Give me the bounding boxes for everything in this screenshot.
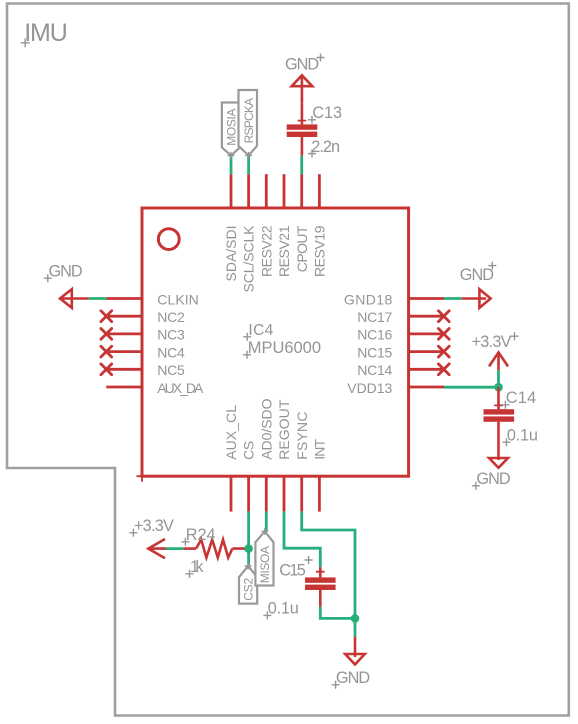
- no-connect X on NC4: [101, 346, 112, 357]
- pin VDD13 (right): [347, 380, 444, 396]
- svg-text:GND: GND: [336, 669, 370, 687]
- pin RESV21 (top): [276, 174, 292, 277]
- pin NC14 (right): [357, 362, 444, 378]
- junction node FSYNC/C15/GND: [351, 614, 360, 623]
- svg-text:CS: CS: [241, 441, 257, 460]
- svg-text:+3.3V: +3.3V: [472, 333, 512, 351]
- ground symbol GND (right of GND18): [460, 262, 497, 308]
- pin CLKIN (left): [106, 291, 199, 307]
- svg-text:IMU: IMU: [24, 19, 68, 47]
- pin NC3 (left): [106, 327, 185, 343]
- pin NC2 (left): [106, 309, 185, 325]
- wire net FSYNC to junction: [302, 512, 355, 619]
- pin CPOUT (top): [294, 174, 310, 272]
- pin REGOUT (bottom): [276, 399, 292, 511]
- wire net AD0/SDO down to MISOA flag: [265, 512, 268, 531]
- svg-text:+3.3V: +3.3V: [134, 517, 174, 535]
- svg-text:NC16: NC16: [357, 327, 392, 343]
- wire net GND to CLKIN: [89, 297, 106, 300]
- pin AD0/SDO (bottom): [258, 398, 274, 511]
- no-connect X on NC14: [438, 364, 449, 375]
- pin SDA/SDI (top): [223, 174, 239, 281]
- wire net junction up to +3.3V: [497, 370, 500, 387]
- svg-text:NC14: NC14: [357, 362, 392, 378]
- junction node VDD13/C14/+3.3V: [494, 383, 503, 392]
- wire net CS pin down to CS2 flag: [247, 512, 250, 566]
- value MPU6000: [243, 339, 321, 359]
- svg-text:IC4: IC4: [248, 322, 273, 339]
- net flag CS2: [239, 563, 257, 604]
- ground symbol GND (bottom): [332, 637, 371, 689]
- wire net C13 to CPOUT: [300, 156, 303, 175]
- supply symbol +3.3V (left, at R24): [129, 517, 174, 558]
- svg-text:NC3: NC3: [157, 327, 185, 343]
- svg-text:C14: C14: [506, 389, 537, 407]
- svg-text:CS2: CS2: [242, 577, 256, 600]
- wire net GND18 to GND: [444, 297, 462, 300]
- pin AUX_CL (bottom): [223, 405, 239, 512]
- svg-text:NC15: NC15: [357, 344, 392, 360]
- pin INT (bottom): [312, 438, 328, 511]
- svg-text:AUX_CL: AUX_CL: [223, 405, 239, 460]
- pin AUX_DA (left): [106, 380, 204, 396]
- wire net MOSIA to SDA/SDI: [230, 155, 233, 174]
- resistor R24: [184, 540, 249, 558]
- wire net VDD13 to junction: [444, 386, 499, 389]
- pin NC17 (right): [357, 309, 444, 325]
- pin GND18 (right): [344, 291, 444, 307]
- value 2.2n: [308, 138, 340, 158]
- svg-text:NC17: NC17: [357, 309, 392, 325]
- capacitor C14: [484, 387, 515, 460]
- svg-text:C13: C13: [312, 104, 342, 122]
- svg-text:C15: C15: [279, 562, 306, 580]
- svg-text:NC4: NC4: [157, 344, 185, 360]
- no-connect X on NC2: [101, 311, 112, 322]
- pin FSYNC (bottom): [294, 412, 310, 512]
- svg-text:REGOUT: REGOUT: [276, 399, 292, 460]
- svg-text:0.1u: 0.1u: [507, 426, 538, 444]
- value 0.1u (C14): [503, 426, 538, 446]
- no-connect X on NC5: [101, 364, 112, 375]
- svg-text:RESV21: RESV21: [276, 225, 292, 277]
- svg-text:R24: R24: [186, 526, 216, 544]
- net flag MOSIA: [222, 103, 240, 159]
- svg-text:MPU6000: MPU6000: [248, 339, 321, 357]
- label C15: [279, 556, 312, 580]
- pin NC4 (left): [106, 344, 185, 360]
- pin SCL/SCLK (top): [241, 174, 257, 292]
- module title IMU: [21, 19, 68, 47]
- svg-text:RESV22: RESV22: [258, 225, 274, 277]
- no-connect X on NC16: [438, 329, 449, 340]
- svg-text:GND: GND: [285, 56, 319, 74]
- no-connect X on NC15: [438, 346, 449, 357]
- svg-text:RESV19: RESV19: [312, 225, 328, 277]
- pin NC15 (right): [357, 344, 444, 360]
- svg-text:MOSIA: MOSIA: [224, 109, 238, 146]
- pin NC16 (right): [357, 327, 444, 343]
- no-connect X on NC3: [101, 329, 112, 340]
- svg-text:CPOUT: CPOUT: [294, 225, 310, 272]
- op IC IC4 MPU6000 body: [137, 208, 409, 482]
- value 1k: [186, 558, 205, 578]
- wire net RSPCKA to SCL/SCLK: [247, 155, 250, 174]
- value 0.1u (C15): [263, 600, 298, 620]
- wire net junction to GND: [354, 618, 357, 636]
- svg-text:FSYNC: FSYNC: [294, 412, 310, 460]
- ground symbol GND (top, above C13): [285, 54, 325, 104]
- pin CS (bottom): [241, 441, 257, 512]
- svg-text:AD0/SDO: AD0/SDO: [258, 398, 274, 459]
- net flag RSPCKA: [239, 90, 258, 159]
- net flag MISOA: [255, 528, 273, 586]
- ground symbol GND (left of CLKIN): [44, 263, 89, 308]
- no-connect X on NC17: [438, 311, 449, 322]
- label R24: [181, 526, 215, 546]
- wire net REGOUT to C15: [284, 512, 320, 568]
- label IC4: [243, 322, 273, 341]
- svg-text:0.1u: 0.1u: [268, 600, 299, 618]
- capacitor C15: [305, 567, 336, 607]
- svg-text:NC2: NC2: [157, 309, 185, 325]
- svg-text:GND18: GND18: [344, 291, 393, 307]
- svg-text:VDD13: VDD13: [347, 380, 392, 396]
- pin RESV22 (top): [258, 174, 274, 277]
- pin NC5 (left): [106, 362, 185, 378]
- wire net +3.3V to R24: [166, 547, 184, 550]
- svg-text:RSPCKA: RSPCKA: [242, 98, 256, 144]
- svg-text:GND: GND: [476, 470, 510, 488]
- supply symbol +3.3V (above C14): [472, 332, 519, 370]
- ground symbol GND (below C14): [472, 458, 511, 490]
- label C14: [501, 389, 536, 409]
- svg-text:SDA/SDI: SDA/SDI: [223, 226, 239, 282]
- capacitor C13: [287, 104, 318, 156]
- svg-text:AUX_DA: AUX_DA: [157, 380, 204, 396]
- label C13: [308, 104, 342, 124]
- svg-text:CLKIN: CLKIN: [157, 291, 199, 307]
- wire net C15 bottom to junction: [320, 607, 355, 619]
- svg-text:GND: GND: [49, 263, 83, 281]
- svg-text:INT: INT: [312, 438, 328, 459]
- svg-text:NC5: NC5: [157, 362, 185, 378]
- svg-text:GND: GND: [460, 266, 494, 284]
- svg-text:SCL/SCLK: SCL/SCLK: [241, 225, 257, 293]
- pin RESV19 (top): [312, 174, 328, 277]
- svg-text:MISOA: MISOA: [258, 546, 272, 583]
- junction node CS/R24: [244, 544, 253, 553]
